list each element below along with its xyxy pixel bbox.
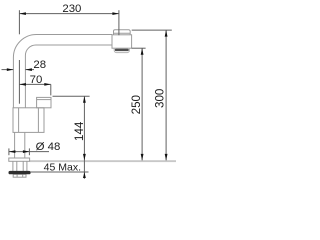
svg-text:70: 70 [30, 74, 43, 86]
svg-text:300: 300 [154, 89, 167, 108]
svg-text:250: 250 [130, 95, 143, 114]
svg-text:28: 28 [33, 59, 46, 71]
svg-text:45 Max.: 45 Max. [44, 162, 81, 174]
svg-text:Ø 48: Ø 48 [36, 141, 61, 153]
svg-text:230: 230 [62, 3, 81, 15]
svg-text:144: 144 [73, 121, 86, 141]
